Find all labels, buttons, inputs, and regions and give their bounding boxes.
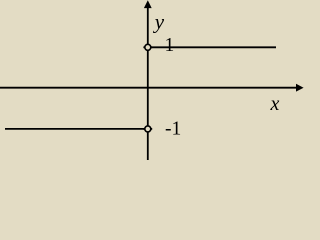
svg-text:x: x [270,93,280,115]
wire: segment y=1 for x&gt;0 [148,46,276,48]
y-axis arrowhead [144,0,152,8]
svg-text:-1: -1 [165,119,181,140]
wire: segment y=-1 for x&lt;0 [5,128,148,130]
tick at y=-1 [143,128,152,130]
y-axis [147,7,149,160]
x-axis arrowhead [296,84,304,92]
svg-text:1: 1 [165,35,175,56]
tick at y=1 [143,46,152,48]
node: open circle at (0,-1) [145,126,151,132]
node: open circle at (0,1) [145,44,151,50]
svg-text:y: y [153,10,165,34]
x-axis [0,87,297,89]
